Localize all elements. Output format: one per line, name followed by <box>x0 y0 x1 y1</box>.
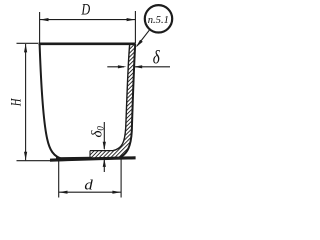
callout leader line <box>137 30 149 46</box>
delta dimension: right leader with arrow pointing left <box>134 66 170 68</box>
callout circle <box>145 5 172 32</box>
hatching (section lines) <box>0 30 266 172</box>
left foot thickening of bottom <box>56 157 92 160</box>
d dimension: left extension line <box>58 161 60 198</box>
D dimension line <box>40 19 135 21</box>
svg-text:п.5.1: п.5.1 <box>148 15 169 26</box>
D arrow left <box>40 18 49 21</box>
d arrow left <box>59 191 68 194</box>
outer bottom (thick base of cup) <box>50 158 136 160</box>
H dimension: top extension tick <box>17 42 39 44</box>
d dimension: right extension line <box>120 159 122 198</box>
inner bottom surface line <box>90 150 114 152</box>
label delta0 <box>89 126 105 138</box>
right wall outer edge <box>120 44 136 157</box>
H dimension line <box>25 44 27 160</box>
svg-text:H: H <box>9 98 25 107</box>
delta dimension: left leader with arrow pointing right <box>107 66 124 68</box>
H arrow down <box>24 152 27 161</box>
svg-text:D: D <box>81 1 91 18</box>
crucible rim (top edge) <box>39 42 136 45</box>
delta0 dimension: upper line with down arrow <box>103 122 105 149</box>
right wall inner edge <box>113 44 130 151</box>
section left boundary (centerline edge of half-section) <box>89 151 91 159</box>
d dimension line <box>59 191 121 193</box>
svg-text:δ: δ <box>153 48 161 69</box>
d arrow right <box>112 191 121 194</box>
delta0 dimension: lower line with up arrow <box>103 159 105 172</box>
svg-text:d: d <box>84 178 93 194</box>
D dimension: right extension line <box>134 11 136 43</box>
base extension line to the left (for H) <box>17 160 55 162</box>
D arrow right <box>127 18 136 21</box>
H arrow up <box>24 44 27 53</box>
left wall outer edge <box>40 44 64 159</box>
callout leader arrowhead <box>136 40 143 48</box>
D dimension: left extension line <box>39 12 41 43</box>
